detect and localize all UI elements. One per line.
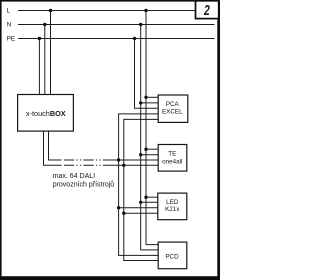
svg-text:L: L	[7, 8, 11, 15]
svg-text:EXCEL: EXCEL	[162, 108, 183, 115]
svg-text:PCD: PCD	[165, 254, 179, 261]
svg-text:2: 2	[203, 2, 210, 18]
svg-text:PCA: PCA	[166, 101, 180, 108]
svg-text:N: N	[7, 22, 12, 29]
svg-text:K21x: K21x	[165, 206, 180, 213]
svg-text:one4all: one4all	[162, 158, 182, 165]
svg-text:TE: TE	[168, 151, 176, 158]
svg-text:max. 64 DALI: max. 64 DALI	[53, 173, 95, 180]
svg-text:PE: PE	[7, 36, 16, 43]
svg-text:x-touchBOX: x-touchBOX	[26, 109, 66, 118]
svg-text:provozních přístrojů: provozních přístrojů	[53, 180, 115, 188]
